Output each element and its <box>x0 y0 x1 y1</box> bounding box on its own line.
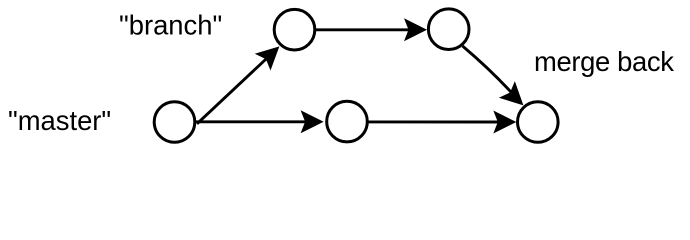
arrowhead into merge node (diagonal) <box>499 81 532 114</box>
wire master segment 1 <box>194 120 318 123</box>
wire merge diagonal <box>463 46 521 102</box>
wire master segment 2 <box>367 120 511 123</box>
svg-text:"master": "master" <box>8 105 111 136</box>
node master-start <box>154 102 195 143</box>
node branch-2 <box>428 9 469 50</box>
arrowhead into merge node (horizontal) <box>493 111 516 134</box>
node merge <box>518 102 559 143</box>
svg-text:merge back: merge back <box>534 46 674 77</box>
arrowhead into branch-2 <box>404 18 427 41</box>
node master-mid <box>327 101 368 142</box>
arrowhead into branch-1 <box>255 38 288 71</box>
svg-text:"branch": "branch" <box>119 10 222 41</box>
node branch-1 <box>274 9 315 50</box>
arrowhead into master-mid <box>301 110 324 133</box>
wire branch segment <box>313 28 421 31</box>
wire branch-off diagonal <box>197 49 277 124</box>
